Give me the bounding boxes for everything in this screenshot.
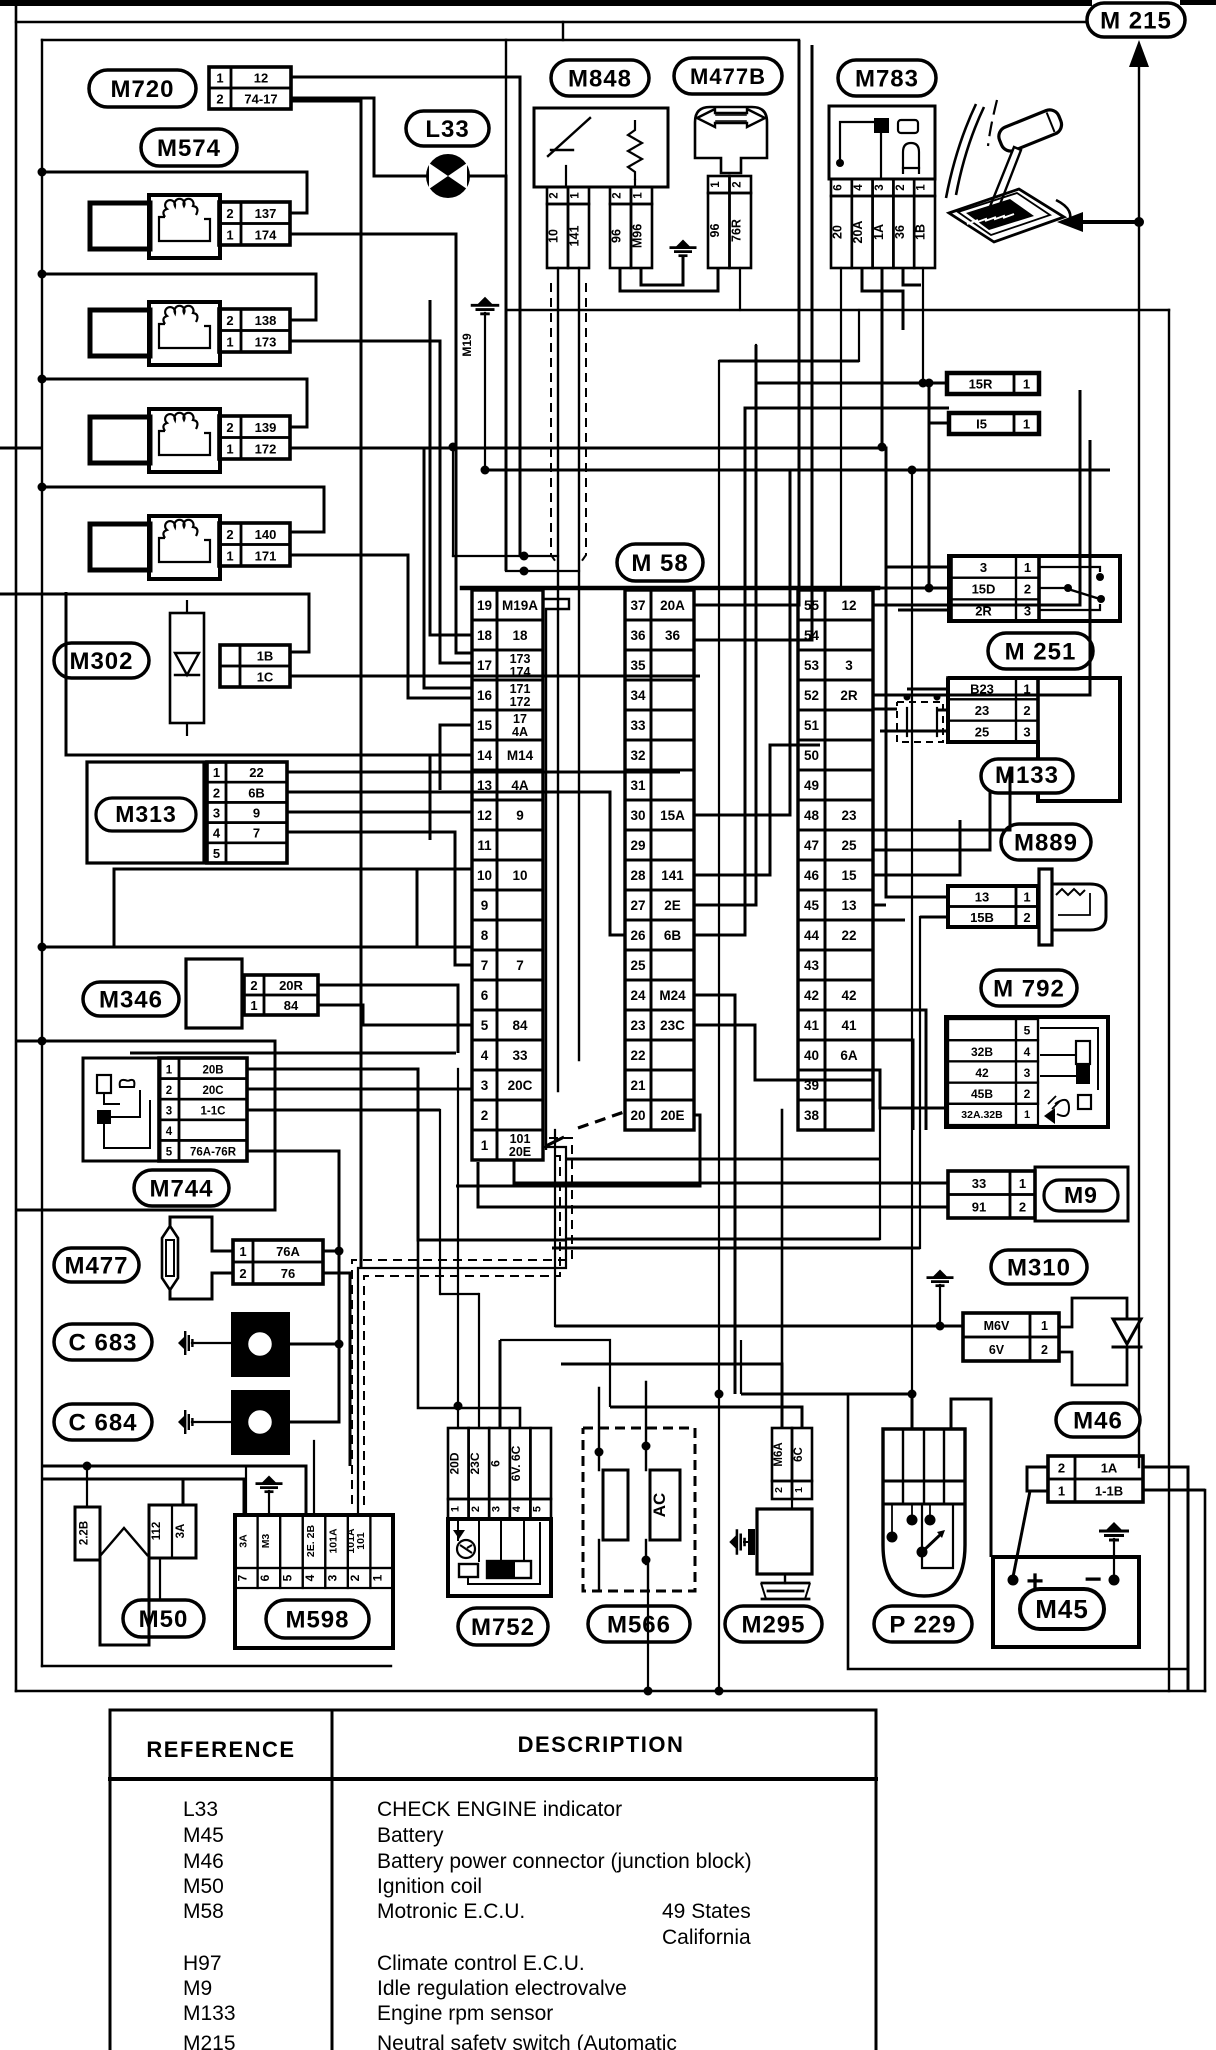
coil M50 label <box>123 1600 204 1637</box>
connector M46 pins <box>1048 1456 1143 1502</box>
wire M598-3A <box>245 1466 247 1515</box>
svg-text:Motronic E.C.U.: Motronic E.C.U. <box>377 1900 525 1923</box>
svg-text:25: 25 <box>841 838 857 853</box>
wire M46 to battery <box>1013 1491 1030 1577</box>
svg-text:23: 23 <box>841 808 857 823</box>
svg-text:172: 172 <box>510 695 531 709</box>
battery M45 box <box>993 1557 1139 1647</box>
svg-text:13: 13 <box>841 898 857 913</box>
svg-text:9: 9 <box>481 898 489 913</box>
wire M251-3 <box>886 383 949 593</box>
svg-text:2: 2 <box>348 1574 362 1581</box>
injector feed bus 2 <box>38 270 317 321</box>
svg-text:3: 3 <box>845 658 853 673</box>
svg-text:1: 1 <box>213 765 220 780</box>
unit M792 body <box>946 1017 1108 1127</box>
svg-text:17: 17 <box>477 658 492 673</box>
svg-text:2: 2 <box>1024 582 1031 597</box>
diode M302 body <box>170 600 204 736</box>
svg-text:M744: M744 <box>149 1176 213 1203</box>
wire M783-1A <box>878 268 887 452</box>
svg-text:M9: M9 <box>1064 1182 1098 1208</box>
svg-text:2: 2 <box>216 92 223 107</box>
svg-text:42: 42 <box>975 1066 989 1080</box>
wire M752-20D <box>454 1402 463 1429</box>
svg-text:36: 36 <box>665 628 681 643</box>
wire C683 <box>290 1340 344 1349</box>
svg-text:12: 12 <box>477 808 492 823</box>
bus M50 top <box>42 1466 306 1515</box>
wire M477-76 right <box>323 1273 350 1466</box>
svg-text:21: 21 <box>630 1078 646 1093</box>
svg-text:DESCRIPTION: DESCRIPTION <box>518 1732 685 1757</box>
svg-text:172: 172 <box>255 441 277 456</box>
wire M133-B23 <box>907 688 948 691</box>
svg-text:34: 34 <box>630 688 646 703</box>
battery M45 terminals <box>1008 1563 1120 1598</box>
svg-text:15: 15 <box>841 868 857 883</box>
wire M313-9 <box>287 811 472 814</box>
svg-text:I5: I5 <box>976 417 987 432</box>
svg-text:M50: M50 <box>183 1875 224 1898</box>
svg-text:1: 1 <box>570 192 582 199</box>
svg-text:38: 38 <box>804 1108 820 1123</box>
wire M295 area down <box>715 1390 724 1696</box>
svg-text:2: 2 <box>895 184 907 190</box>
wire M744-20C <box>247 1088 472 1091</box>
wire M19A hook <box>544 599 569 1150</box>
switch M215 label <box>1087 3 1185 37</box>
wire col2 rows right <box>456 345 949 1394</box>
svg-text:5: 5 <box>166 1147 173 1159</box>
wire col3 row55 <box>873 390 1080 605</box>
svg-text:20A: 20A <box>851 221 865 244</box>
shifter illustration <box>946 100 1070 242</box>
ground C683 symbol <box>178 1331 231 1355</box>
svg-text:17: 17 <box>513 712 527 726</box>
relay M251 body <box>949 556 1120 621</box>
svg-text:M24: M24 <box>659 988 686 1003</box>
svg-text:M133: M133 <box>995 762 1059 789</box>
svg-text:M889: M889 <box>1014 830 1078 857</box>
wire M295 pins to body <box>791 1499 793 1509</box>
wire injector2-173 <box>291 341 472 663</box>
connector M752 body <box>448 1519 551 1596</box>
svg-text:51: 51 <box>804 718 820 733</box>
svg-text:M19A: M19A <box>502 598 538 613</box>
injector feed bus 1 <box>38 168 308 214</box>
svg-text:23: 23 <box>975 703 989 718</box>
svg-text:1: 1 <box>1023 417 1030 432</box>
horn M295 body <box>729 1509 812 1599</box>
svg-text:20: 20 <box>830 225 844 239</box>
wire M50 feeds <box>83 1462 184 1508</box>
connector M46 label <box>1056 1403 1140 1437</box>
unit M744 box <box>83 1058 160 1161</box>
wire M752-23C <box>478 1294 480 1428</box>
ECU M58 label <box>617 544 703 581</box>
wire M313-22 <box>287 771 680 774</box>
svg-text:M46: M46 <box>183 1850 224 1873</box>
wire M313-6B <box>287 792 625 935</box>
svg-text:M 215: M 215 <box>1100 8 1172 35</box>
ground connector C683 label <box>54 1324 152 1360</box>
svg-text:101: 101 <box>355 1532 367 1550</box>
svg-text:3: 3 <box>980 560 987 575</box>
svg-text:3: 3 <box>1023 724 1030 739</box>
valve M9 label <box>1035 1167 1128 1221</box>
svg-text:4A: 4A <box>511 778 529 793</box>
svg-text:7: 7 <box>235 1574 249 1581</box>
svg-text:2: 2 <box>773 1487 785 1493</box>
svg-text:96: 96 <box>610 229 624 243</box>
svg-text:13: 13 <box>477 778 493 793</box>
svg-text:1: 1 <box>226 334 233 349</box>
svg-text:1: 1 <box>226 227 233 242</box>
svg-text:M6V: M6V <box>984 1319 1010 1333</box>
svg-text:29: 29 <box>630 838 645 853</box>
wire M783-36 <box>903 268 921 285</box>
svg-text:171: 171 <box>255 548 277 563</box>
connector M848 pins B <box>610 187 653 268</box>
svg-text:15D: 15D <box>972 582 996 597</box>
injector 2 <box>90 302 290 365</box>
relay M566 label <box>588 1606 690 1642</box>
ground connector C684 body <box>231 1390 290 1455</box>
svg-text:3A: 3A <box>175 1524 187 1539</box>
svg-text:14: 14 <box>477 748 493 763</box>
svg-text:1: 1 <box>250 998 257 1013</box>
svg-text:2: 2 <box>239 1266 246 1281</box>
unit M744 label <box>134 1170 229 1206</box>
svg-text:1A: 1A <box>1101 1461 1118 1476</box>
connector M477B body <box>695 107 767 173</box>
injector 4 <box>90 516 290 579</box>
sensor M889 pins <box>948 886 1038 927</box>
svg-text:2: 2 <box>213 785 220 800</box>
svg-text:76A-76R: 76A-76R <box>190 1147 237 1159</box>
svg-text:M3: M3 <box>260 1534 272 1549</box>
svg-text:3: 3 <box>1024 1066 1031 1080</box>
svg-text:M58: M58 <box>183 1900 224 1923</box>
bus M50 top2 <box>42 1479 244 1515</box>
svg-text:23: 23 <box>630 1018 646 1033</box>
svg-text:C 684: C 684 <box>68 1410 137 1437</box>
svg-text:M 58: M 58 <box>631 550 688 577</box>
svg-text:1: 1 <box>481 1138 489 1153</box>
wire M477B-96 to M848-M96 <box>620 268 718 291</box>
svg-text:L33: L33 <box>183 1798 218 1821</box>
connector M752 label <box>458 1608 548 1645</box>
wire col2 top feeds <box>694 40 812 640</box>
wire 15R <box>756 379 947 388</box>
svg-text:4: 4 <box>303 1574 317 1581</box>
svg-text:M574: M574 <box>157 135 221 162</box>
svg-text:CHECK ENGINE indicator: CHECK ENGINE indicator <box>377 1798 622 1821</box>
wire M346-20R <box>318 985 458 1053</box>
wire M19 bus <box>481 466 1111 475</box>
enclosure P229-M45 <box>848 1394 1188 1669</box>
svg-text:M215: M215 <box>183 2032 236 2050</box>
wire M889-15B <box>920 916 947 919</box>
svg-text:25: 25 <box>630 958 646 973</box>
relay M566 contacts <box>595 1382 681 1591</box>
relay M251 label <box>988 633 1093 669</box>
unit M346 body <box>186 959 242 1028</box>
svg-text:2: 2 <box>1023 703 1030 718</box>
connector M598 label <box>266 1600 369 1638</box>
svg-text:1: 1 <box>216 71 223 86</box>
svg-text:M14: M14 <box>507 748 534 763</box>
switch M783 body <box>829 106 935 179</box>
ECU M58 column B <box>625 590 694 1130</box>
wire col3 rows right <box>873 770 1010 1130</box>
svg-text:15: 15 <box>477 718 493 733</box>
svg-text:1: 1 <box>1024 1109 1030 1121</box>
svg-text:20A: 20A <box>660 598 685 613</box>
svg-text:35: 35 <box>630 658 646 673</box>
svg-text:45: 45 <box>804 898 820 913</box>
sensor M848 body <box>534 108 668 187</box>
svg-text:1: 1 <box>710 181 722 188</box>
svg-text:33: 33 <box>512 1048 528 1063</box>
fuse M477 body <box>162 1226 178 1290</box>
svg-text:53: 53 <box>804 658 820 673</box>
unit M744 pins <box>159 1058 247 1161</box>
svg-text:44: 44 <box>804 928 820 943</box>
svg-text:1A: 1A <box>872 224 886 240</box>
svg-text:1: 1 <box>1041 1319 1048 1333</box>
svg-text:2: 2 <box>1041 1343 1048 1357</box>
svg-text:Ignition coil: Ignition coil <box>377 1875 482 1898</box>
wire M46-1A <box>1143 1467 1188 1691</box>
svg-text:140: 140 <box>255 527 277 542</box>
svg-text:C 683: C 683 <box>68 1330 137 1357</box>
svg-text:1B: 1B <box>914 224 928 240</box>
svg-text:10: 10 <box>547 229 561 243</box>
svg-text:12: 12 <box>254 71 268 86</box>
svg-text:15R: 15R <box>969 377 993 392</box>
svg-text:4: 4 <box>1024 1045 1031 1059</box>
svg-text:2: 2 <box>1023 910 1030 925</box>
wire bottom area <box>418 1069 741 1428</box>
diode M302 pins <box>220 645 290 687</box>
svg-text:7: 7 <box>253 826 260 841</box>
wire M752-6 <box>499 1340 502 1428</box>
distributor P229 label <box>874 1606 972 1642</box>
svg-text:P 229: P 229 <box>889 1612 956 1639</box>
svg-text:3: 3 <box>166 1106 172 1118</box>
distributor P229 body <box>883 1429 965 1596</box>
diode M310 pins <box>963 1313 1059 1361</box>
wire M889-13 <box>873 904 886 907</box>
indicator L33 label <box>406 111 489 146</box>
svg-text:1C: 1C <box>257 670 274 685</box>
wire M133-23 <box>937 709 948 712</box>
svg-text:4: 4 <box>481 1048 489 1063</box>
diode M302 label <box>54 643 149 678</box>
svg-text:4: 4 <box>166 1126 173 1138</box>
svg-text:25: 25 <box>975 724 989 739</box>
connector M598 box <box>235 1515 393 1648</box>
svg-text:M302: M302 <box>69 648 133 675</box>
unit M744 enclosure <box>16 1037 275 1211</box>
wire M477 loop <box>170 1217 233 1299</box>
svg-text:33: 33 <box>972 1176 986 1191</box>
svg-text:7: 7 <box>516 958 524 973</box>
svg-text:1: 1 <box>449 1506 461 1512</box>
unit M346 pins <box>244 975 318 1015</box>
svg-text:13: 13 <box>975 889 989 904</box>
svg-text:2E: 2E <box>664 898 681 913</box>
svg-text:41: 41 <box>804 1018 820 1033</box>
svg-text:6C: 6C <box>793 1447 805 1462</box>
wire M313 feed <box>66 592 472 755</box>
wire M346 feed <box>38 943 473 952</box>
svg-text:6B: 6B <box>248 785 265 800</box>
svg-text:M783: M783 <box>855 66 919 93</box>
svg-text:30: 30 <box>630 808 645 823</box>
svg-text:10: 10 <box>477 868 492 883</box>
ECU M58 column A <box>472 590 543 1160</box>
connector M477B pins <box>708 176 751 268</box>
svg-text:174: 174 <box>255 227 277 242</box>
svg-text:5: 5 <box>1024 1024 1031 1038</box>
svg-text:20: 20 <box>630 1108 645 1123</box>
ground M598 <box>256 1476 283 1516</box>
ground connector C683 body <box>231 1312 290 1377</box>
svg-text:91: 91 <box>972 1199 986 1214</box>
ground C684 symbol <box>178 1410 231 1434</box>
svg-text:52: 52 <box>804 688 819 703</box>
svg-text:41: 41 <box>841 1018 857 1033</box>
switch M783 pins <box>830 179 935 268</box>
svg-text:2: 2 <box>612 192 624 198</box>
svg-text:8: 8 <box>481 928 489 943</box>
svg-text:1: 1 <box>1058 1484 1065 1499</box>
wire corridor A <box>719 310 859 1691</box>
wire below M58 C <box>566 1158 880 1161</box>
svg-text:2: 2 <box>481 1108 489 1123</box>
svg-text:3: 3 <box>491 1506 503 1512</box>
ground M310 <box>927 1270 954 1327</box>
svg-text:1: 1 <box>793 1487 805 1493</box>
ECU M58 column C <box>798 590 873 1130</box>
svg-text:Engine rpm sensor: Engine rpm sensor <box>377 2002 553 2025</box>
wire arrow to M215 <box>1057 40 1149 1467</box>
svg-text:173: 173 <box>255 334 277 349</box>
svg-text:22: 22 <box>630 1048 645 1063</box>
svg-text:139: 139 <box>255 420 277 435</box>
svg-text:49: 49 <box>804 778 819 793</box>
svg-text:M50: M50 <box>139 1606 189 1633</box>
svg-text:23C: 23C <box>468 1452 482 1474</box>
svg-text:7: 7 <box>481 958 489 973</box>
coil M50 pins <box>75 1505 196 1560</box>
wire P229 top <box>741 1390 917 1430</box>
svg-text:6: 6 <box>258 1574 272 1581</box>
connector M720 label <box>89 70 196 107</box>
svg-text:40: 40 <box>804 1048 819 1063</box>
svg-text:2: 2 <box>1024 1087 1031 1101</box>
svg-text:1: 1 <box>166 1064 173 1076</box>
svg-text:M477: M477 <box>64 1253 128 1280</box>
svg-text:74-17: 74-17 <box>244 92 277 107</box>
sensor M889 label <box>1001 824 1091 860</box>
svg-text:2: 2 <box>549 192 561 198</box>
svg-text:AC: AC <box>650 1493 669 1518</box>
wire M313-7 <box>287 832 472 965</box>
svg-text:112: 112 <box>151 1522 163 1541</box>
svg-text:2E. 2B: 2E. 2B <box>305 1525 317 1558</box>
svg-text:M295: M295 <box>741 1612 805 1639</box>
svg-text:M752: M752 <box>471 1614 535 1641</box>
svg-text:2R: 2R <box>840 688 858 703</box>
injector 3 <box>90 409 290 472</box>
svg-text:M45: M45 <box>183 1824 224 1847</box>
sensor M848 label <box>551 60 649 96</box>
fuse M477 pins <box>233 1240 323 1284</box>
svg-text:1: 1 <box>916 184 928 191</box>
svg-text:1: 1 <box>226 548 233 563</box>
svg-text:6: 6 <box>489 1460 503 1467</box>
svg-text:20E: 20E <box>509 1145 531 1159</box>
svg-text:76R: 76R <box>729 219 743 242</box>
svg-text:48: 48 <box>804 808 820 823</box>
svg-text:L33: L33 <box>425 116 469 143</box>
svg-text:24: 24 <box>630 988 646 1003</box>
indicator L33 lamp <box>427 155 469 197</box>
svg-text:42: 42 <box>804 988 819 1003</box>
reference table <box>110 1710 876 2050</box>
wire col3 row52 <box>873 708 897 711</box>
wire M720-12 <box>291 77 520 556</box>
wire M783-20 <box>840 268 842 590</box>
svg-text:6B: 6B <box>664 928 682 943</box>
svg-text:36: 36 <box>893 225 907 239</box>
coil M50 winding <box>100 1528 148 1556</box>
svg-text:5: 5 <box>213 846 220 861</box>
connector M477B label <box>674 58 782 94</box>
wire M744-76A76R <box>247 1151 339 1251</box>
svg-text:6A: 6A <box>840 1048 858 1063</box>
diode M310 label <box>991 1250 1087 1284</box>
svg-text:M848: M848 <box>568 66 632 93</box>
wire M783-1B <box>919 268 928 388</box>
svg-text:M133: M133 <box>183 2002 236 2025</box>
svg-text:6: 6 <box>481 988 489 1003</box>
svg-text:20R: 20R <box>279 978 303 993</box>
svg-text:20E: 20E <box>660 1108 684 1123</box>
svg-text:84: 84 <box>512 1018 528 1033</box>
svg-text:15B: 15B <box>970 910 994 925</box>
wire C684 <box>290 1251 339 1422</box>
svg-text:4: 4 <box>853 184 865 191</box>
svg-text:REFERENCE: REFERENCE <box>146 1737 295 1762</box>
svg-text:Battery: Battery <box>377 1824 444 1847</box>
injector 1 <box>90 195 290 258</box>
svg-text:16: 16 <box>477 688 493 703</box>
wire M744-20B <box>247 1069 566 1240</box>
svg-text:20C: 20C <box>508 1078 533 1093</box>
svg-text:M96: M96 <box>631 224 645 248</box>
ground connector C684 label <box>54 1404 152 1440</box>
wire injector4-171 <box>291 555 472 698</box>
svg-text:141: 141 <box>661 868 684 883</box>
wire M295-M6A <box>561 1110 782 1428</box>
svg-text:M 792: M 792 <box>993 976 1065 1003</box>
ground M45 <box>1099 1522 1129 1576</box>
